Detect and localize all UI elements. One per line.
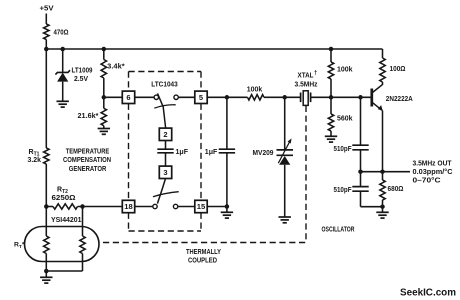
svg-text:470Ω: 470Ω <box>54 30 69 37</box>
svg-text:GENERATOR: GENERATOR <box>69 166 107 173</box>
svg-text:RT*: RT* <box>14 242 25 251</box>
switch wiper top <box>158 93 166 128</box>
wire contact to pin5 <box>178 96 194 98</box>
svg-text:YSI44201: YSI44201 <box>51 217 82 224</box>
svg-text:100k: 100k <box>337 67 353 74</box>
svg-text:RT2: RT2 <box>57 186 68 195</box>
capacitor 1uF outer <box>219 149 235 153</box>
capacitor 510pF upper <box>352 145 368 150</box>
resistor 3.4k* <box>101 60 106 79</box>
svg-text:15: 15 <box>197 202 206 211</box>
svg-text:0–70°C: 0–70°C <box>413 177 441 185</box>
wire LT1009 anode <box>62 82 64 101</box>
junction crystal-560k <box>329 95 334 100</box>
svg-text:THERMALLY: THERMALLY <box>186 249 221 256</box>
junction thermistor-gnd <box>44 269 49 274</box>
transistor Q1 2N2222A <box>370 89 373 107</box>
wire output to 680 <box>382 172 384 180</box>
wire pin5 right <box>207 96 247 98</box>
wire +5V stem <box>45 14 47 25</box>
wire to gnd YSI <box>45 271 47 277</box>
svg-text:6: 6 <box>126 93 130 102</box>
wire +5V rail <box>46 48 382 50</box>
wire thermistor1 bottom <box>45 254 47 272</box>
junction emitter-output <box>380 169 385 174</box>
wire node to 21.6k <box>103 97 105 108</box>
junction caps-output <box>358 169 363 174</box>
wire 1uF junction to gnd <box>226 207 228 213</box>
wire pin15 right <box>207 206 227 208</box>
wire cap to pin3 <box>165 153 167 166</box>
junction 100k-MV209 <box>282 95 287 100</box>
wire node to pin6 <box>104 96 123 98</box>
wire node to cap2 <box>360 172 362 187</box>
wire pin18 to contact <box>135 206 153 208</box>
svg-text:560k: 560k <box>337 115 353 122</box>
wire node to 560k <box>330 97 332 114</box>
ground YSI44201 <box>40 277 52 283</box>
wire MV209 top <box>284 97 286 150</box>
wire node to base <box>331 96 371 98</box>
node A junction <box>44 204 49 209</box>
ground 21.6k <box>98 129 110 135</box>
wire thermal dashed horizontal <box>103 242 306 244</box>
wire RT2 to pin18 <box>78 206 123 208</box>
svg-text:3.5MHz OUT: 3.5MHz OUT <box>413 161 453 168</box>
svg-text:LT1009: LT1009 <box>72 68 93 75</box>
svg-text:100Ω: 100Ω <box>390 66 406 73</box>
junction rail-RT1 <box>44 47 49 52</box>
switch contact bottom-left <box>153 204 157 208</box>
resistor RT1 3.2k <box>44 148 49 164</box>
svg-text:SeekIC.com: SeekIC.com <box>400 287 456 298</box>
svg-text:XTAL: XTAL <box>298 72 315 79</box>
wire 100k to crystal <box>264 96 301 98</box>
svg-text:TEMPERATURE: TEMPERATURE <box>66 149 110 156</box>
pin 3 <box>159 166 171 178</box>
thermistor right <box>80 236 85 254</box>
wire cap2 down <box>360 191 362 207</box>
wire nodeA to thermistor1 <box>45 207 47 237</box>
svg-text:OSCILLATOR: OSCILLATOR <box>322 226 355 233</box>
junction pin15-1uF <box>225 204 230 209</box>
ground LT1009 <box>57 101 69 107</box>
pin 5 <box>195 91 207 103</box>
switch arc bottom <box>153 192 179 197</box>
svg-text:†: † <box>314 70 317 76</box>
junction rail-3.4k <box>102 47 107 52</box>
resistor 560k <box>328 114 333 131</box>
resistor 100ohm <box>380 58 385 82</box>
wire rail to RT1 <box>45 49 47 148</box>
switch contact top-left <box>154 95 158 99</box>
wire 21.6k to gnd <box>103 126 105 129</box>
wire LT1009 cathode <box>62 49 64 72</box>
svg-text:100k: 100k <box>247 86 263 93</box>
switch contact top-right <box>174 95 178 99</box>
svg-text:0.03ppm/°C: 0.03ppm/°C <box>413 168 453 176</box>
pin 6 <box>122 91 134 103</box>
svg-text:18: 18 <box>124 202 133 211</box>
resistor 680ohm <box>380 180 385 200</box>
svg-text:COUPLED: COUPLED <box>188 258 217 265</box>
wire output line <box>361 171 411 173</box>
junction 680-gnd <box>380 204 385 209</box>
resistor 100k series <box>248 95 265 100</box>
ground pin15 <box>221 212 233 218</box>
wire rail to 100k vert <box>330 49 332 62</box>
junction pin5-1uF <box>225 95 230 100</box>
svg-text:5: 5 <box>199 93 203 102</box>
wire MV209 to gnd <box>284 165 286 217</box>
junction rail-LT1009 <box>60 47 64 52</box>
wire 1uF outer bottom <box>226 153 228 207</box>
svg-text:510pF: 510pF <box>334 187 353 194</box>
svg-text:3.2k: 3.2k <box>28 157 42 164</box>
wire gnd stem osc <box>382 207 384 212</box>
svg-text:2: 2 <box>163 130 167 139</box>
wire 680 to bottom <box>382 200 384 207</box>
LTC1043 dashed outline <box>129 71 202 73</box>
svg-text:MV209: MV209 <box>253 150 274 157</box>
wire thermistor common bottom <box>46 270 82 272</box>
svg-text:510pF: 510pF <box>334 146 353 153</box>
capacitor 510pF lower <box>352 187 368 192</box>
svg-text:680Ω: 680Ω <box>388 186 404 193</box>
node divider junction <box>102 95 107 100</box>
wire RT1 to nodeA <box>45 164 47 207</box>
wire 470 to rail <box>45 40 47 50</box>
thermistor RT left <box>44 236 49 254</box>
resistor 470&#937; <box>44 24 49 40</box>
wire 100ohm to collector <box>382 82 384 85</box>
thermistor network YSI44201 body <box>25 227 100 262</box>
svg-text:3.4k*: 3.4k* <box>107 64 125 71</box>
svg-text:3.5MHz: 3.5MHz <box>295 82 318 89</box>
wire 100k to node <box>330 79 332 97</box>
pin 18 <box>122 200 134 212</box>
wire 1uF outer top <box>226 97 228 149</box>
junction RT2-thermistor2 <box>80 204 85 209</box>
wire contact to pin15 <box>178 206 195 208</box>
switch arc top <box>154 105 175 108</box>
wire thermal dashed vertical <box>305 106 307 243</box>
pin 2 <box>159 128 171 140</box>
ground 560k <box>325 136 337 142</box>
svg-text:2N2222A: 2N2222A <box>386 96 413 103</box>
crystal XTAL 3.5MHz <box>300 93 302 103</box>
wire thermistor2 top <box>82 207 84 237</box>
svg-text:3: 3 <box>163 168 167 177</box>
junction base-510pF <box>358 95 363 100</box>
diode LT1009 zener <box>55 70 70 74</box>
ground oscillator <box>376 212 388 218</box>
ground MV209 <box>279 217 291 223</box>
svg-text:2.5V: 2.5V <box>74 76 88 83</box>
junction rail-100k <box>329 47 334 52</box>
wire bottom link <box>361 206 383 208</box>
switch contact bottom-right <box>173 204 177 208</box>
wire pin6 to contact <box>135 96 154 98</box>
capacitor 1uF internal <box>157 149 173 153</box>
svg-text:1μF: 1μF <box>176 149 189 156</box>
svg-text:1μF: 1μF <box>205 149 218 156</box>
wire rail corner to 100ohm <box>382 49 384 58</box>
wire nodeA to RT2 <box>46 206 53 208</box>
wire emitter <box>382 111 384 172</box>
svg-text:COMPENSATION: COMPENSATION <box>63 157 111 164</box>
wire base to cap1 <box>360 97 362 145</box>
resistor 100k bias <box>328 62 333 79</box>
wire rail to 3.4k <box>103 49 105 60</box>
wire thermistor2 bottom <box>82 254 84 272</box>
svg-text:6250Ω: 6250Ω <box>52 195 76 202</box>
wire pin2 to cap <box>165 141 167 150</box>
pin 15 <box>195 200 207 212</box>
svg-text:LTC1043: LTC1043 <box>151 82 178 89</box>
varactor MV209 <box>277 149 294 151</box>
resistor RT2 6250 <box>53 204 78 209</box>
svg-text:+5V: +5V <box>40 3 54 12</box>
wire crystal to node <box>311 96 331 98</box>
wire 560k to gnd <box>330 131 332 136</box>
switch wiper bottom <box>157 179 165 204</box>
svg-text:21.6k*: 21.6k* <box>78 113 99 120</box>
wire 3.4k to node <box>103 78 105 97</box>
resistor 21.6k* <box>101 108 106 125</box>
wire cap1 to node <box>360 150 362 172</box>
